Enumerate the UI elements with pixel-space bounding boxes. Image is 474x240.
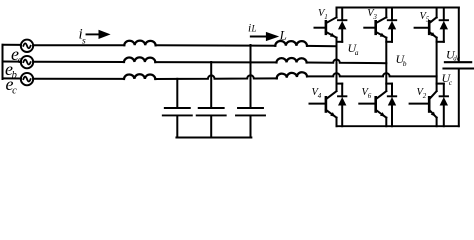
svg-text:a: a [18,55,23,66]
svg-text:L: L [251,23,257,33]
svg-text:1: 1 [324,13,328,21]
svg-text:2: 2 [423,92,427,100]
svg-text:dc: dc [453,55,461,63]
svg-text:b: b [403,59,407,68]
svg-text:s: s [82,37,86,47]
svg-text:6: 6 [368,92,372,100]
svg-text:L: L [279,27,287,42]
svg-text:4: 4 [318,92,322,100]
svg-text:c: c [12,85,17,96]
svg-text:3: 3 [372,13,377,21]
svg-text:5: 5 [426,16,430,24]
svg-text:a: a [355,48,359,57]
